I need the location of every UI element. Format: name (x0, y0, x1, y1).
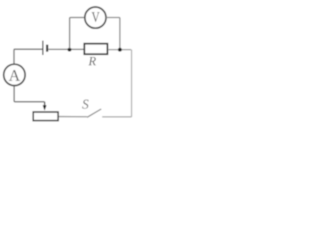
ammeter U2: circle (4, 64, 25, 85)
voltmeter U1: circle (85, 7, 106, 28)
battery B1: short plate (right) (46, 45, 48, 52)
background (0, 0, 136, 133)
wire: resistor right to node to top-right corner (108, 49, 131, 51)
switch label S (82, 100, 88, 109)
ammeter label A (9, 70, 20, 81)
resistor label R (88, 57, 95, 65)
rheostat slider arrow head (43, 105, 47, 110)
wire: right edge vertical (131, 50, 133, 117)
battery B1: long plate (left) (42, 41, 44, 55)
wire: switch left terminal to rheostat right end (59, 116, 87, 118)
wire: battery to resistor left, through node (48, 48, 84, 50)
node: left junction dot (68, 48, 72, 52)
wire: left edge up from ammeter top, then top wire to battery (14, 49, 43, 64)
node: right junction dot (118, 48, 122, 52)
wire: voltmeter branch left vertical and top run (70, 18, 85, 49)
rheostat slider arrow stem (44, 102, 46, 106)
wire: bottom right run to switch right terminal (102, 116, 131, 118)
wire: bottom left run and left vertical up to ammeter bottom (14, 86, 45, 102)
voltmeter label V (92, 12, 100, 22)
wire: voltmeter right run and right vertical down to node (106, 18, 120, 49)
switch S: blade (open) (87, 109, 101, 117)
rheostat RP: body rectangle (33, 112, 58, 121)
resistor R: body rectangle (84, 44, 107, 55)
